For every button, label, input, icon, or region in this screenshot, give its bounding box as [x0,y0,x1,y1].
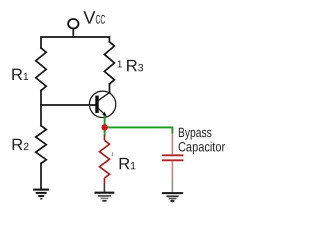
svg-text:Bypass: Bypass [178,125,212,140]
svg-text:R2: R2 [11,136,29,154]
svg-text:R3: R3 [126,57,144,75]
svg-text:1: 1 [117,59,123,70]
svg-text:VCC: VCC [83,8,105,28]
svg-text:R1: R1 [118,155,136,173]
svg-text:R1: R1 [11,66,29,84]
svg-text:Capacitor: Capacitor [178,139,226,154]
